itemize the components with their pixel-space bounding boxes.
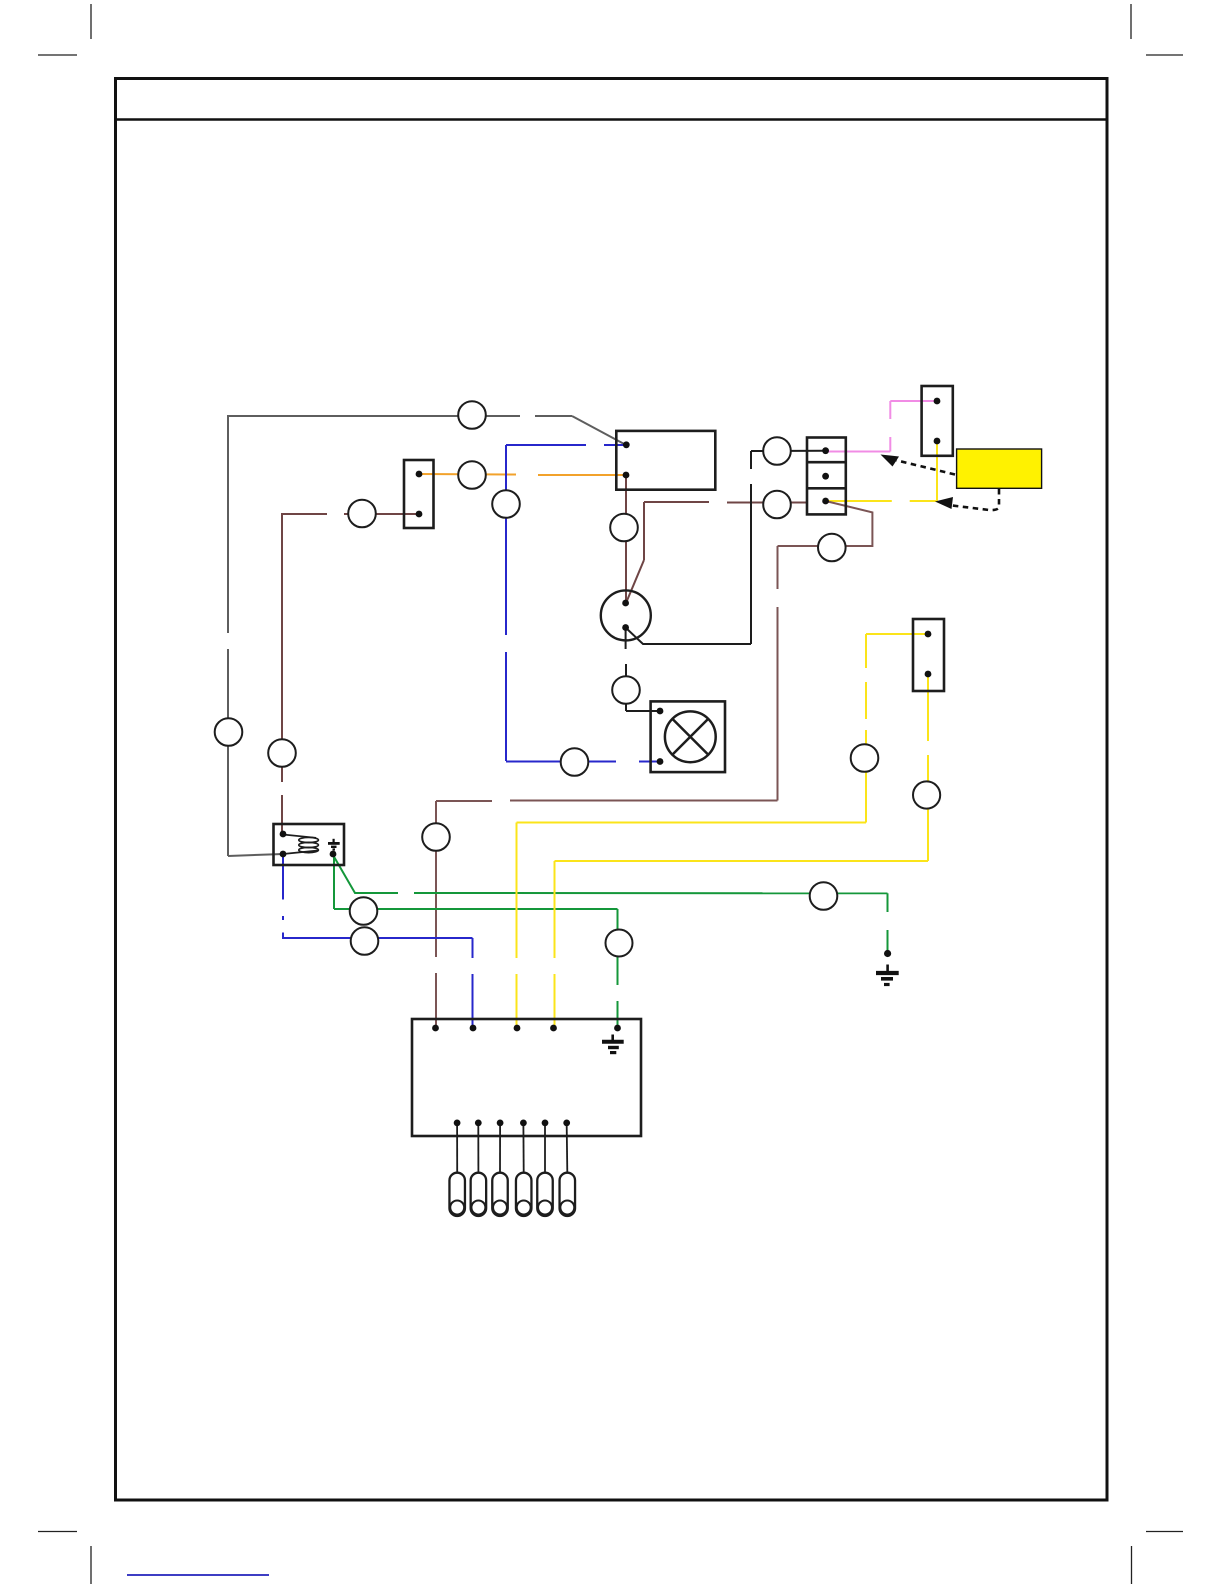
relay K1 <box>274 824 345 865</box>
connector circle on blue wire 2 <box>351 927 379 955</box>
connector circle on green wire 1 <box>810 882 838 910</box>
footer link underline <box>127 1574 269 1576</box>
connector circle on maroon long run <box>818 534 846 562</box>
spark plug 1 <box>449 1173 465 1216</box>
distributor <box>601 590 651 640</box>
wire: yellow from connector T2b to connector T3 bottom <box>828 443 937 501</box>
connector circle on green wire 2 <box>350 897 378 925</box>
wire: black from distributor down to warning lamp <box>626 628 659 711</box>
wire: maroon from coil terminal 1 to distributor <box>625 477 627 602</box>
connector circle on black T3 wire <box>763 437 791 465</box>
crop mark bottom-left <box>38 1532 91 1584</box>
wire: green 1 from relay 87 to ground point <box>333 855 888 950</box>
spark plug 6 <box>560 1173 576 1216</box>
connector T2a <box>404 460 434 528</box>
spark plug lead 2 <box>477 1126 479 1172</box>
crop mark top-left <box>38 4 91 55</box>
spark plug lead 6 <box>566 1126 569 1172</box>
wire: yellow 2 from connector T2c to control unit pin 4 <box>555 677 929 1026</box>
ground point G1 <box>876 950 899 985</box>
connector circle on coil-distributor wire <box>610 514 638 542</box>
spark plug lead 3 <box>499 1126 501 1172</box>
spark plug lead 4 <box>522 1126 524 1172</box>
connector T3 (3-way) <box>807 438 846 515</box>
connector circle on gray vertical <box>215 718 243 746</box>
connector circle on yellow wire 2 <box>913 781 940 808</box>
control unit <box>412 1019 641 1136</box>
wire: gray feed from ignition switch to relay terminal 86 <box>227 416 626 856</box>
dashed pointer arrow to yellow wire <box>935 489 999 510</box>
page border frame <box>116 79 1108 1501</box>
spark plug lead 5 <box>544 1126 546 1172</box>
wire: maroon from connector T2a to relay terminal 85 <box>282 513 419 835</box>
connector circle on maroon left vertical <box>268 739 296 767</box>
connector T2c <box>913 619 944 691</box>
wire: blue from ignition coil terminal 1 down to warning lamp <box>506 445 659 762</box>
connector circle on lamp feed <box>612 676 640 704</box>
wire: maroon long run from connector T3 to control unit pin 1 <box>436 501 872 1026</box>
crop mark bottom-right <box>1132 1532 1184 1584</box>
connector circle on blue lamp wire <box>561 748 589 776</box>
wire: black from distributor terminal to connector T3 top <box>626 451 825 644</box>
connector circle on yellow wire 1 <box>851 744 879 772</box>
warning lamp <box>651 701 725 772</box>
connector circle on maroon T2a wire <box>348 500 376 528</box>
connector circle on gray feed <box>458 401 486 429</box>
spark plug 3 <box>492 1173 508 1216</box>
yellow callout box <box>957 449 1042 488</box>
connector circle on maroon T3 wire <box>763 491 791 519</box>
spark plug 2 <box>471 1173 487 1216</box>
crop mark top-right <box>1131 4 1183 55</box>
ground symbol inside control unit <box>602 1035 624 1053</box>
connector circle on green vertical <box>606 930 633 957</box>
connector T2b <box>922 386 953 456</box>
connector circle on blue wire <box>492 490 520 518</box>
title band divider <box>114 118 1107 121</box>
spark plug 4 <box>516 1173 532 1216</box>
ignition coil <box>616 431 715 490</box>
wire: pink from connector T3 to connector T2b <box>826 401 936 452</box>
spark plug 5 <box>537 1173 553 1216</box>
ground symbol inside relay <box>328 839 340 850</box>
connector circle on orange wire <box>458 461 486 489</box>
wire: orange from connector T2a to ignition coil terminal 15 <box>419 474 626 475</box>
wire: yellow 1 from connector T2c to control unit pin 3 <box>517 634 928 1026</box>
dashed pointer arrow to pink wire <box>881 455 956 475</box>
wire: green 2 from relay 87 to control unit pin 5 <box>334 856 618 1026</box>
wire: maroon from distributor to connector T3 <box>626 502 806 603</box>
connector circle on maroon control wire <box>422 823 450 851</box>
wire: blue 2 from relay 86 to control unit pin 2 <box>282 856 473 1026</box>
spark plug lead 1 <box>456 1126 458 1172</box>
